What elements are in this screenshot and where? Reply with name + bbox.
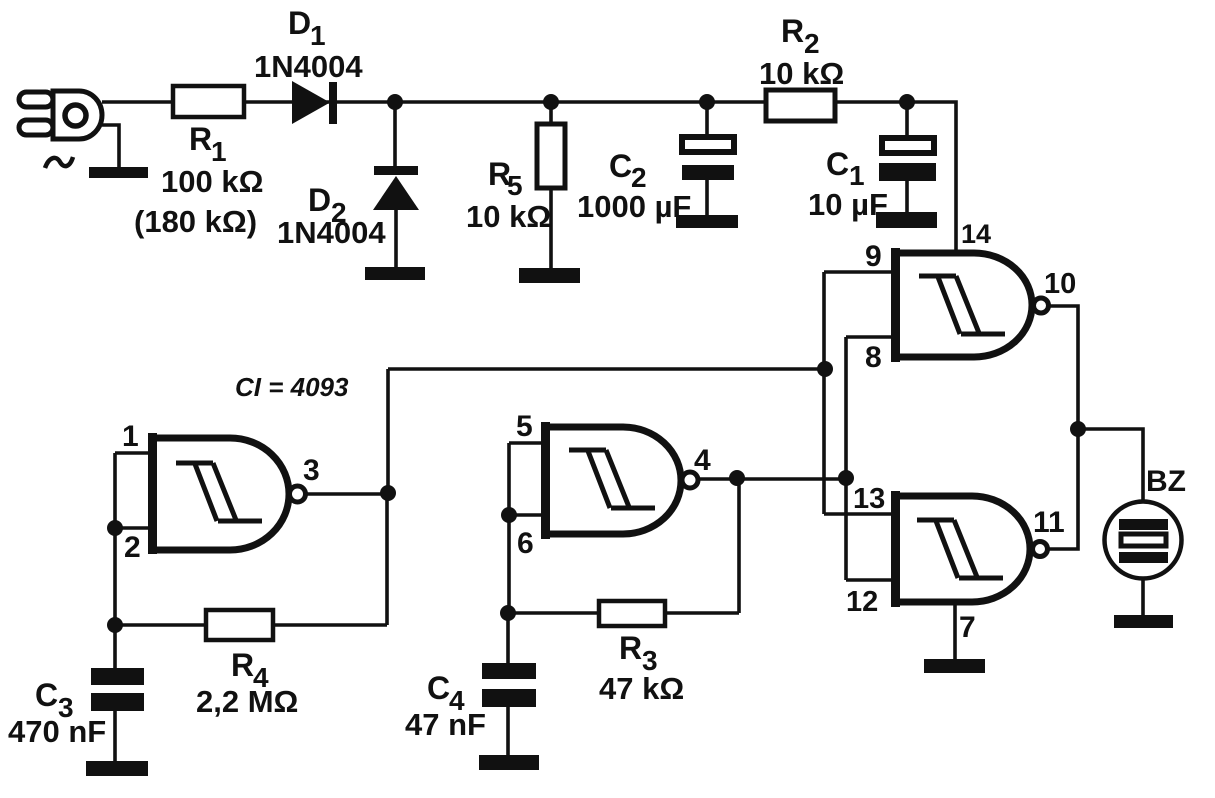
svg-text:4: 4	[694, 444, 711, 477]
svg-text:10 µF: 10 µF	[808, 187, 888, 222]
svg-text:47 nF: 47 nF	[405, 707, 486, 742]
svg-text:(180 kΩ): (180 kΩ)	[134, 204, 257, 239]
svg-text:7: 7	[959, 611, 976, 644]
svg-text:6: 6	[517, 527, 534, 560]
svg-text:100 kΩ: 100 kΩ	[161, 164, 263, 199]
svg-text:2: 2	[804, 28, 820, 59]
svg-text:13: 13	[853, 483, 885, 515]
svg-text:CI = 4093: CI = 4093	[235, 372, 349, 402]
svg-text:1000 µF: 1000 µF	[577, 189, 691, 224]
svg-text:R: R	[231, 647, 254, 683]
svg-text:D: D	[308, 182, 331, 218]
svg-text:10 kΩ: 10 kΩ	[466, 199, 551, 234]
svg-text:R: R	[781, 13, 804, 49]
svg-text:1: 1	[310, 20, 326, 51]
svg-text:D: D	[288, 5, 311, 41]
svg-text:C: C	[609, 148, 632, 184]
svg-text:10: 10	[1044, 268, 1076, 300]
svg-text:R: R	[619, 630, 642, 666]
svg-text:BZ: BZ	[1146, 465, 1186, 498]
svg-text:1: 1	[211, 136, 227, 167]
svg-text:2,2 MΩ: 2,2 MΩ	[196, 684, 298, 719]
svg-text:9: 9	[865, 240, 882, 273]
svg-text:47 kΩ: 47 kΩ	[599, 671, 684, 706]
svg-text:12: 12	[846, 586, 878, 618]
svg-text:1N4004: 1N4004	[277, 215, 386, 250]
svg-text:R: R	[189, 121, 212, 157]
svg-text:5: 5	[516, 410, 533, 443]
svg-text:1: 1	[122, 420, 139, 453]
svg-text:2: 2	[124, 531, 141, 564]
svg-text:C: C	[35, 677, 58, 713]
svg-text:8: 8	[865, 341, 882, 374]
svg-text:3: 3	[303, 454, 320, 487]
svg-text:C: C	[826, 146, 849, 182]
svg-text:C: C	[427, 670, 450, 706]
svg-text:11: 11	[1033, 506, 1065, 539]
svg-text:5: 5	[507, 170, 523, 201]
svg-text:470 nF: 470 nF	[8, 714, 106, 749]
svg-text:1N4004: 1N4004	[254, 49, 363, 84]
svg-text:10 kΩ: 10 kΩ	[759, 56, 844, 91]
svg-text:14: 14	[961, 219, 991, 249]
